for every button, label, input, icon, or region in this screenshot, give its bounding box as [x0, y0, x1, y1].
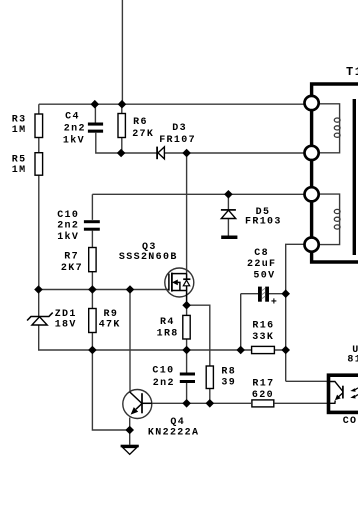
- svg-text:C8: C8: [254, 248, 269, 259]
- svg-text:T1: T1: [346, 65, 358, 79]
- svg-text:39: 39: [221, 378, 236, 389]
- wire C10b verticals: [186, 350, 188, 403]
- wire top vertical: [121, 0, 123, 104]
- wire R3/R5 chain: [38, 104, 40, 289]
- svg-text:R6: R6: [133, 117, 148, 128]
- resistor R9: [89, 309, 96, 333]
- svg-text:R5: R5: [12, 155, 27, 166]
- wire R8 bottom: [209, 389, 211, 404]
- svg-text:47K: 47K: [99, 319, 121, 330]
- wire C10a top corner: [91, 194, 93, 220]
- mosfet Q3: [165, 268, 194, 305]
- svg-text:620: 620: [252, 390, 274, 401]
- wire D5 verticals: [227, 194, 229, 235]
- wire left branch to emitter: [92, 350, 129, 430]
- svg-text:R4: R4: [160, 317, 175, 328]
- wire Q4 emitter to ground: [129, 418, 131, 445]
- capacitor C10 top: [84, 220, 100, 223]
- diode D3: [157, 147, 164, 160]
- node C4 top: [91, 100, 100, 109]
- node emitter: [125, 426, 134, 435]
- capacitor C10 bottom: [180, 373, 195, 376]
- wire R7 bottom: [91, 272, 93, 290]
- svg-text:2n2: 2n2: [57, 220, 79, 231]
- svg-text:CON: CON: [343, 416, 358, 427]
- svg-text:R8: R8: [221, 366, 236, 377]
- capacitor C8: [258, 287, 278, 309]
- wire Q3 drain: [186, 153, 188, 274]
- svg-text:D3: D3: [172, 123, 187, 134]
- node rail E R8: [206, 399, 215, 408]
- svg-text:FR107: FR107: [159, 135, 196, 146]
- svg-text:2K7: 2K7: [61, 263, 83, 274]
- svg-text:1kV: 1kV: [57, 231, 79, 243]
- svg-text:1M: 1M: [12, 165, 27, 176]
- resistor R8: [206, 366, 213, 389]
- wire ZD1 bottom corner: [39, 325, 93, 350]
- optocoupler LED light arrows: [355, 388, 358, 397]
- svg-text:2n2: 2n2: [153, 378, 175, 389]
- wire R9 verticals: [91, 290, 93, 351]
- node drain tap: [182, 149, 191, 158]
- diode D5: [221, 210, 236, 219]
- svg-text:22uF: 22uF: [247, 259, 276, 270]
- wire rail D y=350.4: [92, 349, 285, 351]
- wire rail B y=153: [121, 152, 305, 154]
- terminal circle pin3: [305, 187, 319, 201]
- wire C4 top: [94, 104, 96, 122]
- wire rail E y=403.3: [152, 402, 327, 404]
- terminal circle pin4: [305, 238, 319, 252]
- optocoupler U2 box: [329, 375, 358, 412]
- winding 1 wire: [319, 104, 340, 153]
- terminal circle pin2: [305, 146, 319, 160]
- svg-text:R17: R17: [252, 379, 274, 390]
- svg-text:C4: C4: [65, 111, 80, 122]
- transistor Q4: [123, 390, 152, 419]
- resistor R4: [183, 315, 190, 339]
- svg-text:50V: 50V: [253, 271, 275, 282]
- svg-text:1M: 1M: [12, 125, 27, 136]
- optocoupler phototransistor: [327, 382, 343, 404]
- transformer T1 primary thick frame: [312, 84, 358, 262]
- svg-text:R16: R16: [252, 321, 274, 332]
- node rail D R16 right: [281, 346, 290, 355]
- svg-text:KN2222A: KN2222A: [148, 428, 199, 439]
- node rail D C8: [236, 346, 245, 355]
- svg-text:33K: 33K: [252, 332, 274, 343]
- svg-text:27K: 27K: [132, 129, 154, 140]
- node rail E C10: [182, 399, 191, 408]
- wire rail C y=194.3: [92, 193, 305, 195]
- svg-text:R7: R7: [64, 252, 79, 263]
- wire Q4 collector: [129, 290, 131, 393]
- svg-text:FR103: FR103: [245, 216, 282, 227]
- node rail D R4/C10: [182, 346, 191, 355]
- svg-text:R3: R3: [12, 115, 27, 126]
- wire C4 bottom corner: [96, 133, 121, 153]
- svg-text:Q4: Q4: [170, 417, 185, 428]
- winding 2 coil loops: [334, 209, 340, 229]
- svg-text:2n2: 2n2: [64, 124, 86, 135]
- svg-text:ZD1: ZD1: [55, 309, 77, 320]
- wire C10a to R7: [91, 231, 93, 248]
- node gate rail left: [34, 285, 43, 294]
- wire rail A y=104.2: [39, 103, 305, 105]
- winding 2 wire: [319, 194, 340, 245]
- svg-text:SSS2N60B: SSS2N60B: [119, 252, 178, 263]
- winding 1 coil loops: [334, 118, 340, 137]
- svg-text:1kV: 1kV: [63, 135, 85, 147]
- node source: [182, 301, 191, 310]
- wire C8 horizontal: [241, 293, 286, 295]
- node gate rail R7/R9: [88, 285, 97, 294]
- node gate rail Q4 collector: [126, 285, 135, 294]
- node R6 top: [118, 100, 127, 109]
- resistor R17: [252, 400, 274, 407]
- wire source to R8 corner: [187, 305, 210, 366]
- wire gate rail y=289.5: [39, 289, 169, 291]
- svg-text:817: 817: [347, 355, 358, 366]
- svg-text:1R8: 1R8: [157, 329, 179, 340]
- D5 end bar: [221, 236, 237, 240]
- resistor R5: [35, 153, 43, 176]
- svg-text:+: +: [271, 297, 278, 308]
- resistor R3: [35, 114, 43, 138]
- ground: [121, 445, 139, 455]
- capacitor C4: [88, 123, 103, 126]
- wire R4 verticals: [186, 305, 188, 350]
- wire circle4 to C8 node and down to opto: [286, 244, 305, 381]
- node C4/R6 bottom: [117, 149, 126, 158]
- node C8 right: [281, 289, 290, 298]
- zener ZD1: [27, 313, 53, 325]
- transformer core bar: [353, 99, 356, 255]
- resistor R16: [252, 346, 275, 353]
- node D5 tap: [224, 190, 233, 199]
- resistor R6: [118, 114, 125, 138]
- terminal circle pin1: [305, 96, 319, 110]
- wire ZD1 top: [38, 290, 40, 317]
- svg-text:C10: C10: [152, 365, 174, 376]
- resistor R7: [89, 248, 96, 272]
- node rail D R9: [88, 346, 97, 355]
- wire into opto upper: [286, 380, 327, 382]
- wire C8 left vertical: [240, 294, 242, 350]
- svg-text:18V: 18V: [55, 320, 77, 331]
- wire R6 verticals: [121, 104, 123, 153]
